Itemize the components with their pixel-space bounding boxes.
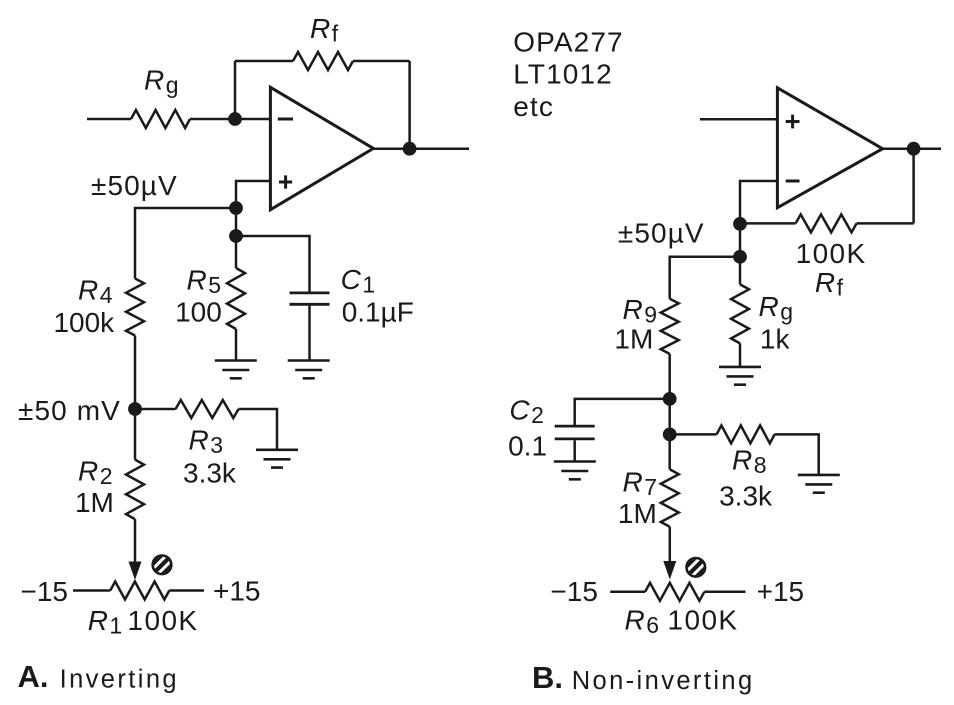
wire C2 to ground (573, 440, 576, 461)
wire R3 to ground (239, 409, 277, 450)
wire pot R1 to +15 (169, 589, 204, 592)
label Rf B (815, 267, 844, 301)
label Rf (310, 13, 339, 47)
resistor R8 (717, 425, 775, 443)
svg-text:1M: 1M (618, 498, 657, 529)
potentiometer R6 (645, 583, 704, 601)
op-amp B (777, 88, 882, 208)
svg-text:Rf: Rf (310, 13, 339, 47)
resistor R4 (126, 279, 144, 336)
svg-text:OPA277: OPA277 (513, 26, 623, 57)
wire R8 to ground (775, 434, 819, 474)
svg-text:LT1012: LT1012 (513, 59, 613, 90)
label -15 B (550, 576, 598, 607)
svg-text:Rg: Rg (144, 64, 179, 98)
pin minus A (278, 118, 293, 121)
wire node to R3 (135, 408, 176, 411)
wire node to C1 (236, 236, 310, 292)
label Rg value 1k (760, 324, 791, 355)
svg-text:R4: R4 (78, 275, 113, 309)
ground under Rg B (719, 367, 761, 385)
op-amp A (270, 87, 373, 209)
label R3 (188, 424, 223, 458)
label offset A ±50µV (91, 170, 178, 201)
svg-text:0.1: 0.1 (508, 430, 547, 461)
resistor R7 (661, 469, 679, 526)
label C1 (341, 264, 376, 298)
wire junction to C2 (575, 399, 670, 425)
ground under C1 (288, 361, 330, 379)
wire R7 to wiper arrow B (669, 527, 672, 564)
label R2 (78, 456, 113, 490)
wire Rf to output B (857, 222, 914, 225)
node A inverting input junction (228, 112, 242, 126)
label R7 value 1M (618, 498, 657, 529)
svg-text:C2: C2 (509, 395, 544, 429)
ground under C2 (554, 462, 596, 480)
wire noninverting input A (236, 181, 270, 208)
wire R9 bottom chain (668, 354, 671, 470)
caption A Inverting (18, 659, 180, 694)
wire between junctions B (739, 224, 742, 285)
pin plus B (786, 115, 800, 129)
label R3 value 3.3k (183, 457, 237, 488)
label C2 (509, 395, 544, 429)
potentiometer R1 (110, 582, 169, 600)
svg-text:R8: R8 (732, 445, 767, 479)
svg-text:−15: −15 (550, 576, 598, 607)
svg-text:±50µV: ±50µV (618, 218, 705, 249)
node B R8 junction (663, 428, 677, 442)
label C1 value 0.1µF (342, 296, 414, 327)
wire R4 to node (134, 336, 137, 410)
label +15 A (213, 576, 261, 607)
svg-text:B.: B. (532, 660, 563, 695)
pin plus A (279, 175, 292, 188)
svg-text:1M: 1M (75, 487, 114, 518)
resistor Rf B 100K (796, 214, 857, 232)
label R8 value 3.3k (719, 481, 773, 512)
wiper arrow A (129, 562, 142, 581)
wire output B (883, 147, 941, 150)
ground under R3 (256, 450, 298, 468)
wire R5 to ground (235, 329, 238, 360)
svg-text:R9: R9 (622, 294, 657, 328)
label R1 100K (88, 605, 199, 639)
label -15 A (21, 576, 69, 607)
wire feedback right A (408, 61, 411, 149)
svg-text:+15: +15 (213, 576, 261, 607)
resistor R2 (126, 460, 144, 519)
svg-text:100: 100 (175, 297, 222, 328)
wire feedback left A (234, 61, 237, 119)
svg-text:R2: R2 (78, 456, 113, 490)
ground under R8 (798, 475, 840, 493)
svg-text:3.3k: 3.3k (183, 457, 237, 488)
wire -15 to pot R6 (610, 591, 645, 594)
svg-text:R5: R5 (186, 265, 221, 299)
label R8 (732, 445, 767, 479)
label offset B ±50µV (618, 218, 705, 249)
capacitor C2 (555, 426, 595, 439)
resistor R9 (661, 299, 679, 354)
node A output (403, 142, 417, 156)
ground under R5 (215, 361, 257, 379)
wiper arrow B (663, 561, 676, 580)
node B output (907, 142, 921, 156)
node B inverting junction upper (733, 217, 747, 231)
label +15 B (757, 576, 805, 607)
label R2 value 1M (75, 487, 114, 518)
node A noninverting junction upper (229, 201, 243, 215)
svg-text:Rg: Rg (759, 291, 794, 325)
wire node to R2 (134, 409, 137, 460)
resistor Rg B (731, 284, 749, 343)
svg-text:100K: 100K (128, 605, 199, 636)
svg-text:1M: 1M (614, 324, 653, 355)
svg-text:±50 mV: ±50 mV (18, 395, 121, 426)
svg-text:100k: 100k (53, 307, 115, 338)
label R5 value 100 (175, 297, 222, 328)
trim symbol B (676, 547, 716, 587)
svg-text:Non-inverting: Non-inverting (572, 667, 755, 695)
label R4 (78, 275, 113, 309)
resistor Rg (131, 110, 190, 128)
wire junction to R9 branch (670, 257, 740, 299)
svg-text:+15: +15 (757, 576, 805, 607)
resistor R3 (176, 400, 239, 418)
label R7 (622, 466, 657, 500)
wire input B (700, 118, 777, 121)
wire -15 to pot R1 (73, 589, 110, 592)
wire R2 to wiper arrow A (134, 519, 137, 564)
svg-text:±50µV: ±50µV (91, 170, 178, 201)
label R9 value 1M (614, 324, 653, 355)
wire inverting input B (740, 181, 777, 224)
wire feedback top left A (235, 60, 293, 63)
wire pot R6 to +15 (704, 591, 745, 594)
label Rg (144, 64, 179, 98)
wire C1 to ground (308, 306, 311, 361)
wire between junctions A (235, 208, 238, 268)
svg-text:0.1µF: 0.1µF (342, 296, 414, 327)
label R4 value 100k (53, 307, 115, 338)
svg-text:R1: R1 (88, 605, 123, 639)
svg-text:100K: 100K (668, 605, 739, 636)
svg-text:Inverting: Inverting (60, 666, 179, 694)
node B R9 bottom junction (663, 392, 677, 406)
wire Rg to inverting input (190, 118, 270, 121)
label offset A ±50 mV (18, 395, 121, 426)
node A noninverting junction lower (229, 229, 243, 243)
label R9 (622, 294, 657, 328)
wire input A (87, 118, 131, 121)
wire junction to R4 branch (135, 208, 236, 279)
resistor R5 (227, 268, 245, 329)
wire output A (373, 147, 469, 150)
wire junction to Rf B (740, 222, 796, 225)
label R6 100K (625, 605, 739, 639)
svg-text:etc: etc (513, 91, 554, 122)
svg-text:A.: A. (18, 659, 49, 694)
label Rf value 100K (796, 238, 867, 269)
caption B Non-inverting (532, 660, 755, 695)
svg-text:R6: R6 (625, 605, 660, 639)
label C2 value 0.1 (508, 430, 547, 461)
resistor Rf (293, 52, 353, 70)
svg-text:C1: C1 (341, 264, 376, 298)
svg-text:R7: R7 (622, 466, 657, 500)
node A ±50mV junction (128, 402, 142, 416)
svg-text:R3: R3 (188, 424, 223, 458)
svg-text:Rf: Rf (815, 267, 844, 301)
node B inverting junction lower (733, 250, 747, 264)
label part numbers OPA277 LT1012 etc (513, 26, 623, 122)
svg-text:100K: 100K (796, 238, 867, 269)
wire feedback top right A (353, 60, 410, 63)
capacitor C1 (290, 293, 330, 304)
label R5 (186, 265, 221, 299)
svg-text:1k: 1k (760, 324, 791, 355)
svg-text:−15: −15 (21, 576, 69, 607)
wire feedback vertical B (912, 149, 915, 224)
label Rg B (759, 291, 794, 325)
wire junction to R8 (670, 433, 717, 436)
wire Rg to ground B (739, 343, 742, 366)
pin minus B (786, 180, 800, 183)
svg-text:3.3k: 3.3k (719, 481, 773, 512)
trim symbol A (142, 545, 182, 585)
